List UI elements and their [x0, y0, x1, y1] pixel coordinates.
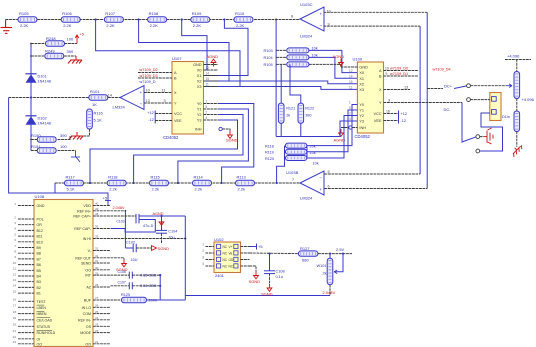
pin U108 POL [18, 218, 34, 220]
diode D102 [26, 115, 37, 117]
ground R249 [68, 56, 82, 64]
pin U108 REF CAP- [93, 228, 111, 230]
wire BUF to R125 [111, 299, 122, 301]
svg-text:40: 40 [95, 202, 99, 206]
wire right loop vertical 2 [419, 26, 421, 174]
svg-text:2: 2 [202, 249, 204, 253]
wire pot1 to pot2 [516, 99, 518, 112]
svg-text:9: 9 [386, 72, 388, 76]
mux U109 CD4052 body [357, 62, 383, 133]
svg-text:BUF: BUF [84, 299, 92, 303]
svg-text:2.2K: 2.2K [193, 23, 202, 28]
svg-text:X0: X0 [197, 69, 202, 73]
wire U109 INH stub [352, 127, 357, 129]
wire to bus left end [160, 299, 185, 301]
svg-text:AZ: AZ [86, 286, 91, 290]
pin U108 COM [93, 313, 111, 315]
svg-text:23: 23 [95, 323, 99, 327]
wire U107 VEE [155, 120, 172, 122]
wire U107 VCC [155, 113, 172, 115]
wire R116 to ground [78, 129, 90, 136]
wire U107 X3 to U109 X3 [218, 87, 357, 90]
svg-text:2.2K: 2.2K [236, 23, 245, 28]
svg-text:Va: Va [229, 251, 233, 255]
wire U107 X2 to U109 X2 [218, 81, 357, 84]
svg-text:C104: C104 [168, 230, 177, 234]
svg-text:R117: R117 [66, 174, 76, 179]
svg-text:100: 100 [67, 37, 74, 42]
svg-text:2.048V: 2.048V [323, 290, 336, 295]
ground SGND U102 [254, 272, 259, 279]
wire U107 Y3 to ladder2 [90, 120, 238, 183]
svg-text:2.2k: 2.2k [195, 186, 203, 191]
svg-text:31: 31 [95, 259, 99, 263]
pin box U102 row 2 [217, 251, 221, 255]
svg-text:U108: U108 [35, 194, 45, 199]
svg-text:25: 25 [95, 310, 99, 314]
svg-text:R118: R118 [265, 144, 274, 148]
pin U108 SEND [93, 262, 111, 264]
svg-text:5.1K: 5.1K [67, 186, 76, 191]
svg-text:R120: R120 [265, 157, 274, 161]
wire right loop vertical D4 [426, 12, 428, 188]
wire U103A - input from U107 Y [144, 102, 172, 104]
svg-text:OO: OO [37, 342, 43, 346]
ground pad3 earth [484, 128, 493, 144]
svg-text:2.2K: 2.2K [150, 23, 159, 28]
svg-text:32: 32 [95, 254, 99, 258]
resistor R117 [65, 180, 84, 186]
wire groupB right tie [306, 146, 308, 158]
wire top ladder rail [6, 19, 300, 21]
svg-text:LM324: LM324 [300, 34, 313, 39]
pin U108 B4 [18, 275, 34, 277]
svg-text:HBEN: HBEN [37, 312, 47, 316]
wire C108 top stem [269, 254, 271, 271]
wire chain to R248 [31, 43, 46, 45]
svg-text:NC: NC [223, 264, 228, 268]
pad DC+ [467, 84, 471, 88]
resistor R110 [234, 17, 253, 23]
wire REF CAP- loop [111, 220, 156, 233]
pin U102 right 5 [241, 265, 250, 267]
svg-text:11: 11 [349, 86, 353, 90]
wire U107 A net [138, 72, 172, 74]
svg-text:1: 1 [349, 101, 351, 105]
pin U108 V- [93, 250, 111, 252]
svg-text:B4: B4 [37, 275, 41, 279]
wire rail drop x276 [275, 20, 277, 137]
svg-text:w7109_D1: w7109_D1 [390, 72, 408, 76]
wire groupA row3 right [309, 64, 341, 67]
svg-text:R116: R116 [94, 111, 104, 116]
svg-text:LM324: LM324 [300, 196, 313, 201]
wire C106 right [132, 274, 160, 276]
resistor R119 [285, 149, 307, 154]
svg-text:SGND: SGND [158, 246, 170, 251]
svg-text:−: − [320, 23, 323, 28]
svg-text:23: 23 [13, 340, 17, 344]
svg-text:8: 8 [291, 15, 293, 19]
svg-text:+5: +5 [80, 33, 84, 37]
wire U107 Y2 to ladder2 [134, 115, 243, 184]
pin U108 IN LO [93, 306, 111, 308]
wire ladder tap 3 to U107 X0 [182, 20, 207, 71]
wire bottom bus R121 R122 [276, 136, 301, 138]
wire connector pin2 loop [480, 113, 503, 151]
svg-text:29: 29 [95, 271, 99, 275]
svg-text:10k: 10k [313, 161, 319, 165]
svg-text:CE/LOAD: CE/LOAD [37, 318, 53, 322]
svg-text:11: 11 [206, 83, 210, 87]
svg-text:B2: B2 [37, 286, 41, 290]
svg-text:0.1u: 0.1u [276, 275, 283, 279]
pin U108 LBEN [18, 306, 34, 308]
svg-text:SGND: SGND [249, 279, 261, 284]
wire pad to pot wiper [471, 85, 507, 87]
svg-text:X1: X1 [197, 74, 202, 78]
capacitor C108 [264, 271, 275, 274]
wire R121 top tie [280, 64, 282, 103]
svg-text:R114: R114 [194, 174, 204, 179]
svg-text:R151: R151 [31, 144, 41, 149]
resistor R249 [45, 53, 64, 59]
svg-text:19: 19 [13, 316, 17, 320]
wire R151 to ground [58, 150, 76, 152]
pin U108 OR [18, 224, 34, 226]
svg-text:SGND: SGND [261, 291, 273, 296]
wire REF IN+ to C102 [125, 247, 133, 249]
svg-text:Y2: Y2 [359, 114, 364, 118]
ground top-left [1, 20, 13, 34]
pin U108 B5 [18, 269, 34, 271]
pin U108 B3 [18, 281, 34, 283]
svg-text:2k: 2k [322, 272, 326, 276]
svg-text:+4.096: +4.096 [522, 97, 535, 102]
svg-text:3: 3 [202, 256, 204, 260]
svg-text:28: 28 [95, 283, 99, 287]
resistor R104 [287, 55, 309, 60]
svg-text:2.2k: 2.2k [109, 186, 117, 191]
pin U108 B6 [18, 264, 34, 266]
svg-text:1: 1 [206, 100, 208, 104]
wire U107 Y1 to ladder2 [178, 109, 249, 183]
svg-text:AGND: AGND [333, 54, 345, 59]
pin U108 REF CAP+ [93, 215, 111, 217]
svg-text:NC: NC [223, 258, 228, 262]
svg-text:22: 22 [13, 335, 17, 339]
pin U108 B8 [18, 252, 34, 254]
wire C104 bottom stem [161, 233, 163, 243]
svg-text:10: 10 [13, 261, 17, 265]
svg-text:C107: C107 [118, 281, 126, 285]
svg-text:w7109_D3: w7109_D3 [140, 74, 158, 78]
svg-text:17: 17 [13, 304, 17, 308]
svg-text:w7109_D4: w7109_D4 [433, 68, 451, 72]
svg-text:B9: B9 [37, 246, 41, 250]
svg-text:+12: +12 [401, 112, 407, 116]
svg-text:4: 4 [202, 262, 204, 266]
resistor R122 [298, 103, 304, 123]
svg-text:15: 15 [206, 77, 210, 81]
svg-text:V+: V+ [229, 245, 233, 249]
svg-text:5: 5 [206, 105, 208, 109]
svg-text:R104: R104 [264, 56, 273, 60]
wire bottom bus 2.048V [185, 295, 330, 297]
svg-text:R105: R105 [19, 11, 29, 16]
wire U103C pin10 run [324, 11, 428, 13]
wire U102 to R127 [250, 252, 299, 255]
svg-text:12: 12 [349, 69, 353, 73]
svg-text:Y0: Y0 [359, 103, 364, 107]
svg-text:X3: X3 [359, 88, 364, 92]
wire R150 to ground [58, 136, 70, 140]
svg-text:VDD: VDD [83, 204, 91, 208]
svg-text:30: 30 [95, 266, 99, 270]
svg-text:AGND: AGND [207, 54, 219, 59]
wire U103A + input from U107 X [144, 92, 172, 94]
pin U107 INH bubble [219, 127, 222, 130]
pad 2 [467, 98, 471, 102]
wire REF IN+ vertical [124, 211, 126, 248]
wire REF OUT to SGND [111, 258, 125, 260]
pin U108 STATUS [18, 325, 34, 327]
svg-text:100: 100 [60, 144, 67, 149]
svg-text:22: 22 [95, 329, 99, 333]
svg-text:26: 26 [95, 304, 99, 308]
svg-text:INT: INT [85, 274, 92, 278]
svg-text:14: 14 [108, 93, 112, 97]
power +5 top [75, 35, 79, 44]
svg-text:33: 33 [95, 247, 99, 251]
svg-text:X2: X2 [359, 82, 364, 86]
wire R122 top tie [290, 64, 301, 103]
svg-text:R106: R106 [62, 11, 72, 16]
pin U108 REF IN- [93, 319, 111, 321]
svg-text:4: 4 [206, 116, 208, 120]
svg-text:R125: R125 [121, 293, 130, 297]
op-amp U103B [300, 171, 324, 195]
svg-text:Y3: Y3 [359, 120, 364, 124]
svg-text:w7109_D0: w7109_D0 [390, 66, 408, 70]
svg-text:+5: +5 [258, 244, 263, 249]
wire W101 top [329, 254, 331, 259]
svg-text:NC: NC [223, 251, 228, 255]
svg-text:NC: NC [223, 245, 228, 249]
svg-text:OS: OS [86, 325, 92, 329]
svg-text:R113: R113 [237, 174, 247, 179]
svg-text:R103: R103 [264, 49, 273, 53]
wire groupA row1 to U109 X0 [309, 50, 357, 72]
ground AGND U107 top [211, 59, 216, 66]
svg-text:5: 5 [328, 170, 330, 174]
svg-text:GND: GND [37, 204, 45, 208]
svg-text:U103C: U103C [300, 2, 313, 7]
svg-text:w7109_D2: w7109_D2 [140, 68, 158, 72]
svg-text:21: 21 [13, 329, 17, 333]
svg-text:D1in: D1in [502, 115, 510, 119]
svg-text:R122: R122 [305, 107, 314, 111]
svg-text:STATUS: STATUS [37, 325, 51, 329]
wire INT to C106 [111, 274, 130, 276]
svg-text:U103B: U103B [286, 170, 299, 175]
pin U108 INT [93, 274, 111, 276]
svg-text:C108: C108 [276, 269, 285, 273]
svg-text:−: − [140, 102, 143, 107]
svg-text:6: 6 [328, 185, 330, 189]
capacitor C104 [156, 230, 167, 233]
svg-text:20: 20 [13, 323, 17, 327]
svg-text:C102: C102 [126, 241, 135, 245]
resistor R150 [37, 137, 56, 143]
svg-text:X2: X2 [197, 80, 202, 84]
svg-text:R248: R248 [46, 36, 56, 41]
svg-text:7: 7 [292, 178, 294, 182]
wire U109 B net [384, 75, 419, 77]
svg-text:21: 21 [95, 340, 99, 344]
svg-text:VCC: VCC [174, 112, 182, 116]
pin U108 GND [18, 205, 34, 207]
svg-text:14: 14 [13, 284, 17, 288]
svg-text:+5: +5 [103, 196, 108, 201]
svg-text:IN LO: IN LO [82, 306, 92, 310]
svg-text:R118: R118 [108, 174, 118, 179]
wire node A to R101 [9, 97, 89, 99]
svg-text:39: 39 [95, 207, 99, 211]
svg-text:U102: U102 [214, 237, 224, 242]
svg-text:390: 390 [67, 49, 74, 54]
wire U107 B net [138, 77, 172, 79]
resistor R118 [285, 143, 307, 148]
pin U108 B2 [18, 286, 34, 288]
svg-text:2.2K: 2.2K [63, 23, 72, 28]
wire groupA row2 to U109 X1 [309, 57, 357, 78]
capacitor C107 [129, 282, 132, 289]
wiper arrow RP1 [506, 84, 512, 88]
svg-text:+4.096: +4.096 [507, 53, 520, 58]
wire groupB to ladder2 [277, 158, 285, 183]
wire U107 INH to SGND [222, 129, 230, 131]
ground AGND U109 bottom [339, 129, 344, 136]
svg-text:16: 16 [13, 298, 17, 302]
pin U102 left 2 [206, 252, 215, 254]
resistor R125 [122, 297, 147, 303]
resistor R127 [298, 251, 318, 256]
pin U108 OO2 [93, 343, 111, 345]
power +5 at U108 VDD [105, 201, 111, 206]
resistor R115 [150, 180, 169, 186]
svg-text:D102: D102 [38, 116, 47, 120]
pin U108 B1 [18, 292, 34, 294]
wire U109 Y1 to groupB [307, 110, 357, 152]
wire +5 rail left [9, 98, 108, 201]
wire W101 wiper link [334, 254, 343, 272]
pin U108 IN HI [93, 238, 111, 240]
resistor R121 [278, 103, 284, 123]
wire pot2 bottom stem [516, 132, 518, 148]
resistor R108 [148, 17, 167, 23]
wire ladder tap 4 to U107 X1 [204, 20, 249, 76]
svg-text:12: 12 [13, 272, 17, 276]
wire R127 right [318, 253, 352, 255]
svg-text:B8: B8 [37, 252, 41, 256]
ground right bottom [510, 143, 524, 157]
supply bar U109 [398, 111, 400, 124]
pin box U102 row 3 [217, 257, 221, 261]
wire C107 right [132, 285, 160, 287]
wire vertical x185 [184, 216, 186, 300]
wire ladder tap 2 to U107 X2 [139, 20, 229, 82]
svg-text:AGND: AGND [334, 138, 346, 143]
adc U108 TC7109 body [34, 200, 93, 347]
pin U102 left 1 [206, 246, 215, 248]
svg-text:VEE: VEE [174, 119, 182, 123]
svg-text:10: 10 [146, 89, 150, 93]
svg-text:36: 36 [95, 225, 99, 229]
svg-text:R119: R119 [265, 151, 274, 155]
wire U109 GND to AGND [341, 66, 357, 68]
svg-text:REF CAP-: REF CAP- [74, 227, 92, 231]
svg-text:SGND: SGND [226, 138, 238, 143]
svg-text:OO: OO [85, 268, 91, 272]
wire groupA left R105 [276, 63, 287, 65]
wire ladder tap 1 to U107 X3 [96, 20, 240, 87]
svg-text:3: 3 [164, 99, 166, 103]
pin U109 INH bubble [349, 126, 352, 129]
wire U109 A net [384, 70, 419, 72]
resistor R109 [191, 17, 210, 23]
wire ladder2 left end down [54, 183, 56, 193]
wire C103 right to C104 node [139, 215, 185, 217]
svg-text:11: 11 [162, 89, 166, 93]
wiper arrow W101 [334, 270, 337, 274]
svg-text:U109: U109 [353, 57, 363, 62]
wire U109 Y0 to groupB [307, 105, 357, 146]
pin U108 CE/LOAD [18, 319, 34, 321]
pin U108 AZ [93, 286, 111, 288]
svg-text:16: 16 [386, 109, 390, 113]
resistor R116 [87, 109, 93, 129]
svg-text:14: 14 [349, 74, 353, 78]
svg-text:18: 18 [13, 310, 17, 314]
wire W101 bottom to bus [329, 285, 331, 296]
svg-text:1: 1 [202, 243, 204, 247]
wire R248 to +5 [65, 43, 78, 45]
power +5 U102 [250, 244, 257, 250]
wire ladder2 rail [55, 182, 300, 184]
pin U108 OI [18, 338, 34, 340]
svg-text:Y2: Y2 [197, 113, 202, 117]
wire C104 top stem [161, 216, 163, 230]
wire R101 to op-amp U103A [108, 97, 120, 99]
svg-text:+: + [320, 11, 323, 16]
wire REF IN+ stub2 [111, 210, 126, 212]
ground SGND arrow right [152, 246, 157, 251]
svg-text:5.1K: 5.1K [94, 118, 103, 123]
svg-text:R121: R121 [286, 107, 295, 111]
svg-text:35: 35 [95, 235, 99, 239]
wire DC+ diagonal [454, 86, 467, 89]
svg-text:Y3: Y3 [197, 119, 202, 123]
svg-text:2.048V: 2.048V [113, 206, 126, 210]
svg-text:1N4148: 1N4148 [38, 79, 51, 83]
pin U108 TEST [18, 300, 34, 302]
resistor R106 [61, 17, 80, 23]
svg-text:RUN/HOLD: RUN/HOLD [37, 331, 56, 335]
wire groupA left R104 [276, 56, 287, 58]
svg-text:Y1: Y1 [359, 109, 364, 113]
svg-text:2.2K: 2.2K [20, 23, 29, 28]
